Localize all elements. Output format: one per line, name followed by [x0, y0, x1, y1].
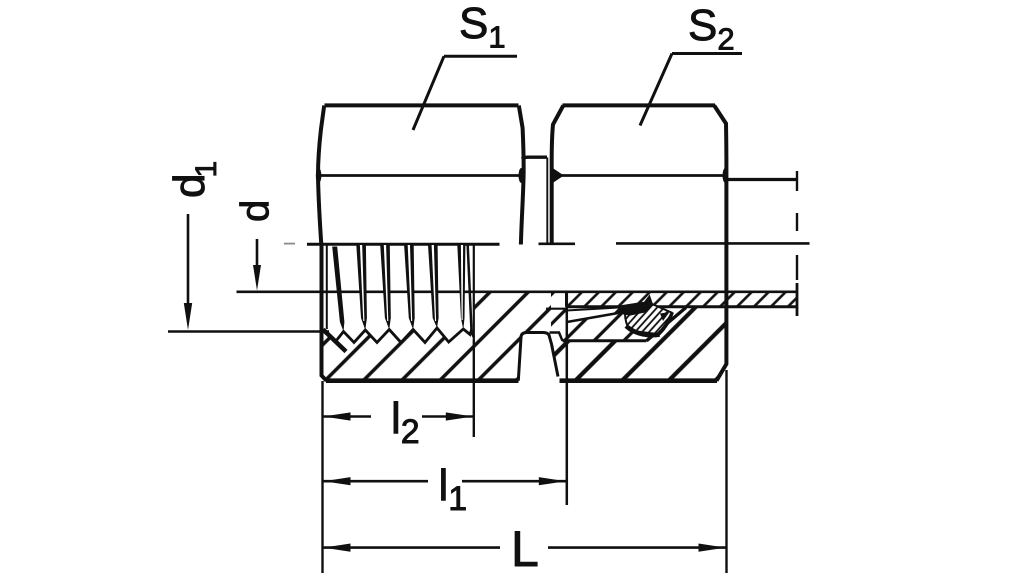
- thumb left edge: [518, 333, 558, 381]
- cutting ring back tip: [660, 312, 670, 321]
- left hex left edge: [318, 106, 324, 245]
- pipe inner line / bore line / d extension: [237, 290, 798, 293]
- dim extension L right: [725, 370, 727, 573]
- nut facet wedge left: [552, 168, 564, 183]
- S2 leader: [640, 54, 742, 126]
- thread runout flank 7: [468, 243, 472, 331]
- left body bottom edge: [326, 378, 519, 383]
- d1 arrowhead: [184, 303, 192, 330]
- thread tooth 4: [404, 245, 415, 330]
- d arrow line: [256, 239, 259, 266]
- thread tooth 6 runout: [457, 245, 465, 330]
- svg-text:d: d: [234, 200, 278, 222]
- l1 arrows: [324, 477, 351, 485]
- nut right edge section + chamfer: [717, 307, 727, 381]
- thread tooth 3: [380, 245, 391, 330]
- L arrows: [324, 544, 351, 552]
- left hex facet line: [318, 174, 524, 177]
- svg-text:L: L: [511, 521, 539, 577]
- pipe outer line bottom: [567, 305, 798, 308]
- centerline segment 1 / thread crest: [307, 243, 500, 246]
- l2 arrows: [324, 412, 351, 420]
- pipe top line: [726, 178, 797, 181]
- dim line l2: [323, 415, 474, 418]
- centerline segment 2: [539, 243, 576, 246]
- nut bottom edge: [560, 378, 718, 383]
- dim extension l1 right: [566, 292, 569, 505]
- nut bore line: [563, 339, 647, 342]
- d1 arrow line: [187, 214, 190, 305]
- male thread lines: [547, 158, 551, 244]
- internal thread: entry chamfer: [323, 330, 346, 352]
- white gap thumb between body and nut: [518, 333, 559, 381]
- centerline segment 3: [616, 242, 810, 245]
- bore shoulder: [565, 292, 568, 307]
- nut facet wedge right: [723, 168, 729, 183]
- cutting ring fine hatch lens: [625, 304, 671, 334]
- centerline left stub: [284, 243, 295, 245]
- dim line L: [323, 546, 727, 549]
- nut top edge: [563, 103, 716, 107]
- thread tooth 1 (entry flank): [332, 247, 344, 332]
- S1 leader: [413, 56, 517, 130]
- thread zigzag root/crest profile: [336, 328, 474, 343]
- hatched section body cone nose: [551, 292, 647, 341]
- cutting ring right concave edge: [659, 312, 673, 334]
- thread counterbore edge: [326, 246, 328, 330]
- thread tooth 2: [356, 245, 367, 330]
- thread end face / l2 extension upper: [473, 246, 475, 341]
- nut thread relief step: [550, 333, 563, 341]
- d arrowhead: [253, 265, 261, 291]
- cutting ring bottom arc: [626, 326, 660, 335]
- body seat line: [546, 308, 567, 310]
- body cone thin lines: [567, 308, 620, 311]
- hatched section nut: [550, 307, 727, 381]
- pipe end dash-dot vertical: [796, 171, 798, 280]
- dim extension l2 right lower: [473, 340, 475, 437]
- dim line l1: [323, 480, 567, 483]
- hatched pipe wall band: [567, 292, 798, 307]
- cutting ring black beak: [616, 303, 651, 315]
- thread tooth 5: [428, 245, 439, 328]
- cutting ring spike: [643, 296, 653, 306]
- left hex facet wedge right: [519, 168, 525, 183]
- neck top line: [522, 157, 547, 159]
- nut top-left chamfer and left edge: [552, 106, 564, 245]
- left hex top edge: [325, 103, 519, 107]
- left hex facet wedge left: [316, 168, 322, 183]
- dim extension left: [321, 381, 323, 573]
- nut cone diagonal: [647, 308, 687, 341]
- nut facet line: [554, 174, 724, 177]
- left hex right edge: [519, 106, 524, 245]
- d1 extension line: [168, 330, 329, 332]
- nut top-right chamfer and right edge: [714, 106, 726, 307]
- hatched section left body: [322, 292, 552, 381]
- left body section left face: [322, 245, 327, 381]
